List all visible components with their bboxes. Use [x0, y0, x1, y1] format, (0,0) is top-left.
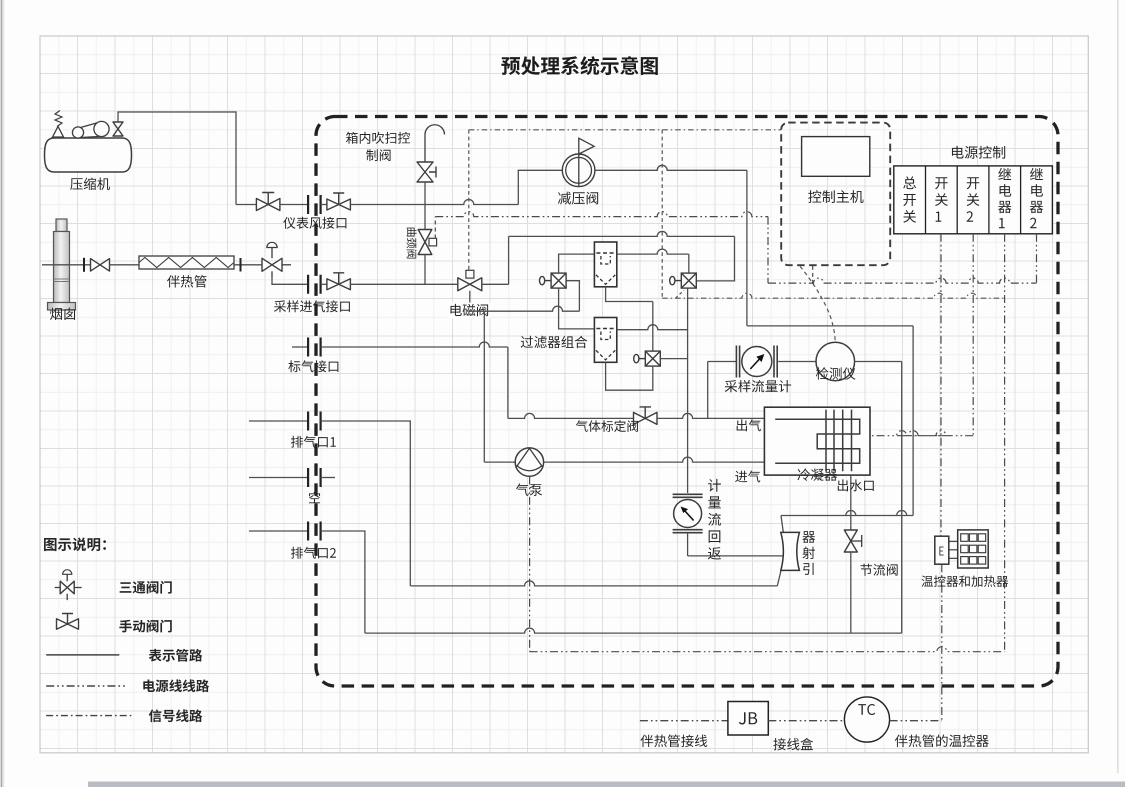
pipe compressor to instrument-air port — [118, 112, 236, 205]
pipe pump to condenser inlet — [544, 457, 765, 462]
x-valve loop riser — [566, 281, 579, 312]
wire purge valve to pipe — [424, 182, 426, 205]
condenser fins — [826, 410, 852, 472]
label 伴热管接线 — [640, 735, 707, 748]
wire upper filter to right x-valve — [617, 249, 689, 273]
pipe reducing valve to right riser — [595, 165, 747, 170]
wire detector to exhaust riser — [855, 362, 902, 634]
signal drop to x-valve run — [661, 130, 663, 298]
air pump 气泵 — [515, 448, 543, 476]
heat tracing pipe 伴热管 — [139, 256, 234, 269]
manual valve before instrument-air port — [256, 193, 280, 211]
wire lower filter to main riser — [617, 325, 688, 330]
label 表示管路 — [149, 649, 203, 662]
solenoid bottom branch — [469, 291, 471, 311]
control host screen — [802, 137, 870, 177]
label 进气 — [735, 470, 760, 482]
pipe to purge riser and pressure reducer — [350, 200, 518, 205]
pressure reducing valve 减压阀 — [562, 138, 595, 186]
label 出水口 — [838, 479, 874, 491]
relay2 drop — [1036, 234, 1038, 283]
filter feed down to right x-valve — [696, 236, 734, 281]
label 气体标定阀 — [576, 420, 638, 432]
compressor outlet valve — [113, 122, 123, 136]
wire goose-neck valve to sampling pipe — [424, 255, 426, 285]
left solenoid x-valve — [540, 273, 567, 288]
legend signal line sample — [46, 715, 132, 717]
label 返回流量计 vertical — [708, 479, 721, 560]
label 采样流量计 — [725, 380, 791, 392]
lower filter 过滤器组合 — [594, 318, 616, 363]
wire valve to port — [280, 204, 308, 206]
pipe to solenoid valve — [350, 283, 458, 285]
upper filter 过滤器组合 — [594, 242, 616, 287]
solenoid valve 电磁阀 — [458, 270, 482, 291]
pump feed run — [470, 306, 580, 311]
main cabinet dashed border — [316, 117, 1058, 687]
power run purge area to host column — [435, 212, 768, 217]
connector tick — [83, 258, 85, 272]
label 排气口2 — [291, 547, 336, 559]
label 伴热管的温控器 — [895, 735, 989, 748]
purge control valve 箱内吹扫控制阀 — [417, 162, 436, 182]
label 箱内吹扫控制阀 — [346, 132, 410, 161]
label 出气 — [737, 419, 761, 431]
return flow meter 返回流量计 — [673, 494, 703, 532]
wire lower x-valve bottom loop — [606, 362, 653, 390]
switch2 drop — [972, 234, 974, 436]
pump power drop — [529, 477, 531, 652]
condenser coil — [775, 419, 860, 463]
heater box 加热器 — [958, 530, 989, 568]
wire upper filter bottom outlet — [606, 287, 653, 351]
label 伴热管 — [167, 275, 206, 288]
stub 排气口2 — [249, 530, 308, 532]
detector 检测仪 — [816, 342, 855, 381]
legend manual valve symbol — [57, 614, 79, 630]
connector tick — [240, 258, 242, 272]
power riser to relay bus — [767, 217, 769, 284]
main riser right x-valve down to return meter — [687, 288, 689, 493]
signal drop to solenoid — [468, 130, 470, 270]
stub 标气接口 — [292, 346, 308, 348]
stub 空 right — [321, 477, 335, 479]
wire to heat-trace pipe — [110, 264, 140, 266]
thermostat box 温控器 — [935, 536, 949, 564]
label 引射器 vertical — [802, 531, 815, 575]
title 预处理系统示意图 — [501, 56, 657, 75]
label 控制主机 — [808, 190, 863, 203]
riser solenoid to filter feed — [509, 231, 735, 284]
legend power line sample — [46, 685, 127, 687]
compressor relief valve with spring — [53, 111, 64, 139]
wire lower x-valve to main riser — [660, 358, 687, 360]
label 图示说明 — [44, 538, 106, 552]
pipe calibration valve to condenser outlet node — [657, 413, 765, 418]
right x-valve — [670, 273, 697, 288]
label 电源控制 — [952, 146, 1005, 159]
heat-trace wiring line — [640, 720, 728, 722]
stub 排气口1 — [249, 420, 308, 422]
power line goose-neck valve handle — [434, 217, 436, 239]
label 信号线路 — [149, 709, 202, 722]
wire solenoid to riser — [482, 283, 509, 285]
label 电磁阀 — [447, 303, 491, 319]
port break 采样进气接口 — [308, 275, 321, 294]
power branch to host — [812, 266, 814, 283]
thermostat-heater connectors — [949, 541, 958, 558]
label 曲颈阀 rotated — [407, 228, 417, 259]
port break 排气口1 — [308, 412, 321, 431]
pump feed branch down — [483, 311, 485, 462]
wire three-way valve down to sampling port — [272, 277, 308, 284]
wire x-valve bottom loop to lower filter — [559, 288, 595, 329]
inner manual valve — [321, 273, 351, 290]
thermostat TC circle — [844, 697, 889, 742]
riser down to ejector feed line — [746, 170, 748, 326]
wire down to air pump — [484, 461, 515, 463]
chimney 烟囱 — [48, 219, 76, 310]
water outlet pipe 出水口 — [850, 475, 852, 530]
wire TC to switch drop — [890, 720, 942, 722]
label 减压阀 — [558, 192, 598, 205]
goose-neck valve 曲颈阀 — [418, 230, 436, 255]
label 压缩机 — [70, 178, 110, 190]
relay1 drop to bottom power bus — [1004, 234, 1006, 652]
label 采样进气接口 — [274, 300, 350, 312]
chimney manual valve — [91, 259, 110, 272]
legend three-way valve symbol — [55, 570, 82, 600]
wire node to sample meter — [708, 361, 737, 363]
label 气泵 — [516, 483, 542, 495]
pipe exhaust2 to detector return loop — [321, 531, 902, 633]
heater grid — [961, 534, 986, 564]
label 烟囱 — [50, 308, 75, 320]
ejector feed right riser — [912, 326, 914, 516]
label 接线盒 — [773, 738, 813, 751]
signal branch to right x-valve — [676, 290, 685, 298]
junction box JB — [728, 702, 768, 736]
wire meter to detector — [778, 361, 816, 363]
connector to ejector top — [781, 516, 783, 533]
pipe calibration gas to calibration valve — [321, 342, 508, 418]
label 标气接口 — [288, 360, 338, 372]
compressor motor cone and circles — [72, 121, 109, 138]
riser node to sample meter — [707, 362, 709, 419]
three-way valve 三通阀门 — [262, 242, 291, 277]
label 过滤器组合 — [521, 336, 588, 349]
riser to goose-neck valve — [424, 205, 426, 230]
power bus to relay2 — [768, 278, 1037, 283]
pipe chimney to heat-trace pipe — [42, 264, 91, 266]
power control table 电源控制 — [894, 166, 1053, 234]
wire return meter to ejector throat — [688, 533, 785, 556]
port break 仪表风接口 — [308, 195, 321, 214]
riser to reducing valve line — [518, 170, 562, 204]
label 节流阀 — [861, 564, 898, 576]
pipe exhaust1 to ejector discharge — [321, 421, 781, 586]
label 排气口1 — [291, 436, 336, 448]
port break 空 — [308, 468, 321, 487]
control host 控制主机 dashed box — [781, 123, 890, 266]
lower x-valve — [634, 351, 661, 366]
wire x-valve to upper filter — [559, 254, 595, 273]
ejector feed upper run — [747, 325, 913, 327]
inner manual valve — [321, 193, 351, 210]
label 检测仪 — [816, 367, 856, 380]
ejector 引射器 — [781, 532, 800, 570]
purge control valve hook — [425, 125, 445, 162]
condenser 冷凝器 box — [764, 407, 870, 475]
wire compressor riser to valve — [236, 204, 257, 206]
wire throttle valve to exhaust loop — [850, 552, 852, 633]
port break 排气口2 — [308, 522, 321, 541]
label 空 — [309, 492, 320, 504]
throttle valve 节流阀 — [844, 530, 861, 552]
switch1 continues to heat-trace thermostat — [941, 564, 943, 721]
legend pipe line sample — [46, 654, 119, 656]
label 手动阀门 — [119, 620, 171, 633]
label 冷凝器 — [797, 468, 837, 480]
ejector feed return run — [781, 511, 913, 516]
label 仪表风接口 — [283, 217, 346, 229]
switch2 run to condenser — [870, 431, 973, 436]
switch column labels — [903, 168, 1043, 228]
gas calibration valve 气体标定阀 — [634, 407, 658, 425]
wire JB to TC — [768, 720, 844, 722]
port break 标气接口 — [308, 338, 321, 357]
label 三通阀门 — [120, 581, 172, 594]
label 电源线线路 — [143, 679, 209, 692]
pipe calibration run — [508, 413, 634, 418]
signal line host to purge/solenoid area — [469, 129, 781, 131]
bottom power bus — [530, 647, 1005, 652]
compressor 压缩机 tank — [45, 138, 132, 172]
stub 空 left — [249, 477, 308, 479]
signal run to relay1 — [662, 293, 1004, 298]
wire heat-trace to three-way valve — [234, 264, 262, 266]
signal curve host to detector — [800, 266, 835, 342]
switch1 drop to thermostat — [940, 234, 942, 536]
label 温控器和加热器 — [921, 575, 1008, 587]
sample flow meter 采样流量计 — [736, 346, 777, 378]
